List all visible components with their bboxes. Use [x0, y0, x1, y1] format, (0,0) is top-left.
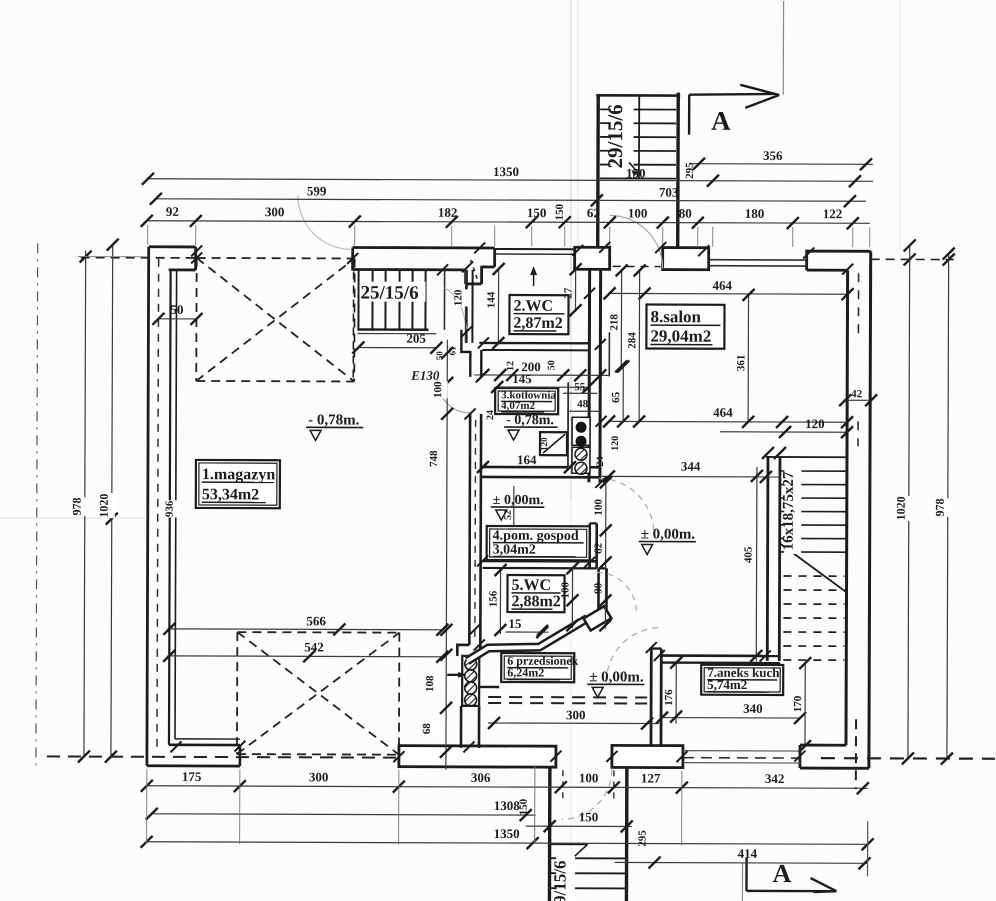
svg-text:300: 300 — [309, 769, 329, 784]
svg-text:176: 176 — [663, 689, 675, 706]
svg-text:24: 24 — [485, 410, 496, 420]
svg-text:144: 144 — [485, 291, 497, 308]
svg-text:2,88m2: 2,88m2 — [511, 593, 560, 610]
svg-text:566: 566 — [306, 613, 326, 628]
svg-text:29,04m2: 29,04m2 — [650, 326, 711, 345]
svg-text:218: 218 — [608, 314, 620, 331]
svg-text:1.magazyn: 1.magazyn — [202, 466, 275, 483]
svg-text:342: 342 — [765, 771, 785, 786]
svg-text:± 0,00m.: ± 0,00m. — [493, 493, 544, 508]
svg-text:53,34m2: 53,34m2 — [202, 486, 259, 503]
svg-text:50: 50 — [546, 360, 557, 370]
svg-text:42: 42 — [851, 388, 863, 400]
svg-text:29/15/6: 29/15/6 — [603, 104, 627, 168]
svg-text:150: 150 — [554, 203, 566, 220]
svg-text:9/15/6: 9/15/6 — [550, 860, 569, 901]
svg-text:- 0,78m.: - 0,78m. — [308, 412, 360, 428]
svg-text:748: 748 — [428, 450, 440, 467]
svg-text:405: 405 — [743, 546, 755, 563]
svg-text:464: 464 — [713, 278, 733, 293]
svg-text:361: 361 — [735, 355, 747, 372]
svg-text:5.WC: 5.WC — [511, 577, 551, 594]
svg-text:15: 15 — [508, 616, 522, 631]
svg-text:55: 55 — [574, 381, 586, 393]
svg-text:340: 340 — [743, 701, 763, 716]
svg-text:306: 306 — [471, 770, 491, 785]
svg-text:± 0,00m.: ± 0,00m. — [641, 526, 696, 542]
svg-text:978: 978 — [70, 498, 84, 516]
svg-text:2.WC: 2.WC — [513, 298, 553, 315]
svg-text:599: 599 — [307, 183, 327, 198]
svg-text:150: 150 — [518, 798, 530, 815]
svg-text:150: 150 — [579, 809, 599, 824]
svg-text:E130: E130 — [410, 368, 440, 383]
svg-text:4,07m2: 4,07m2 — [501, 400, 535, 412]
svg-text:- 0,78m.: - 0,78m. — [506, 413, 554, 428]
svg-text:150: 150 — [626, 165, 646, 180]
svg-text:27: 27 — [563, 287, 575, 299]
svg-text:414: 414 — [738, 846, 758, 861]
svg-text:2,87m2: 2,87m2 — [513, 315, 562, 332]
svg-text:100: 100 — [579, 770, 599, 785]
svg-text:100: 100 — [628, 205, 648, 220]
svg-text:65: 65 — [610, 391, 622, 403]
svg-text:5,74m2: 5,74m2 — [707, 677, 747, 692]
svg-text:936: 936 — [164, 500, 176, 517]
svg-text:284: 284 — [626, 332, 638, 349]
svg-text:92: 92 — [166, 204, 179, 219]
svg-text:295: 295 — [684, 162, 696, 179]
svg-text:3,04m2: 3,04m2 — [493, 543, 536, 558]
svg-text:1350: 1350 — [493, 164, 519, 179]
svg-text:150: 150 — [527, 205, 547, 220]
svg-text:300: 300 — [566, 707, 586, 722]
svg-text:300: 300 — [265, 204, 285, 219]
svg-text:205: 205 — [406, 331, 426, 346]
svg-text:978: 978 — [933, 499, 947, 517]
svg-text:50: 50 — [170, 302, 183, 317]
svg-text:A: A — [711, 106, 731, 136]
svg-text:120: 120 — [610, 436, 621, 451]
svg-text:120: 120 — [453, 289, 465, 306]
svg-text:12: 12 — [505, 361, 516, 371]
svg-text:180: 180 — [745, 206, 765, 221]
svg-text:100: 100 — [432, 381, 444, 398]
svg-text:52: 52 — [503, 510, 514, 520]
svg-text:100: 100 — [593, 499, 605, 516]
svg-text:± 0,00m.: ± 0,00m. — [589, 669, 644, 685]
svg-text:108: 108 — [424, 675, 436, 692]
svg-text:295: 295 — [637, 830, 649, 847]
svg-text:68: 68 — [421, 723, 433, 735]
svg-text:542: 542 — [304, 639, 324, 654]
svg-text:703: 703 — [659, 185, 679, 200]
svg-text:170: 170 — [792, 695, 804, 712]
svg-text:344: 344 — [681, 459, 701, 474]
svg-text:80: 80 — [679, 206, 692, 221]
svg-text:50: 50 — [434, 351, 444, 361]
svg-text:120: 120 — [539, 437, 549, 451]
svg-text:62: 62 — [587, 205, 600, 220]
svg-text:90: 90 — [592, 582, 604, 594]
svg-text:4.pom. gospod: 4.pom. gospod — [493, 529, 579, 544]
svg-text:156: 156 — [487, 590, 499, 607]
svg-text:62: 62 — [593, 542, 605, 554]
svg-text:1020: 1020 — [894, 496, 908, 520]
svg-text:1308: 1308 — [494, 798, 521, 813]
svg-text:24: 24 — [595, 456, 606, 466]
svg-text:356: 356 — [763, 148, 783, 163]
svg-text:25/15/6: 25/15/6 — [361, 283, 419, 304]
svg-text:175: 175 — [182, 769, 202, 784]
svg-text:182: 182 — [438, 205, 458, 220]
svg-text:8.salon: 8.salon — [650, 307, 701, 326]
svg-text:6,24m2: 6,24m2 — [507, 665, 544, 679]
svg-text:164: 164 — [517, 452, 537, 467]
svg-text:127: 127 — [641, 771, 661, 786]
svg-text:122: 122 — [823, 206, 843, 221]
svg-text:1020: 1020 — [97, 494, 111, 518]
svg-text:464: 464 — [713, 405, 733, 420]
svg-text:16x18,75x27: 16x18,75x27 — [781, 471, 797, 550]
svg-text:145: 145 — [512, 371, 532, 386]
svg-text:120: 120 — [805, 416, 825, 431]
svg-text:1350: 1350 — [494, 826, 520, 841]
svg-text:100: 100 — [559, 581, 571, 598]
svg-text:48: 48 — [577, 398, 589, 410]
svg-text:61: 61 — [447, 346, 457, 356]
